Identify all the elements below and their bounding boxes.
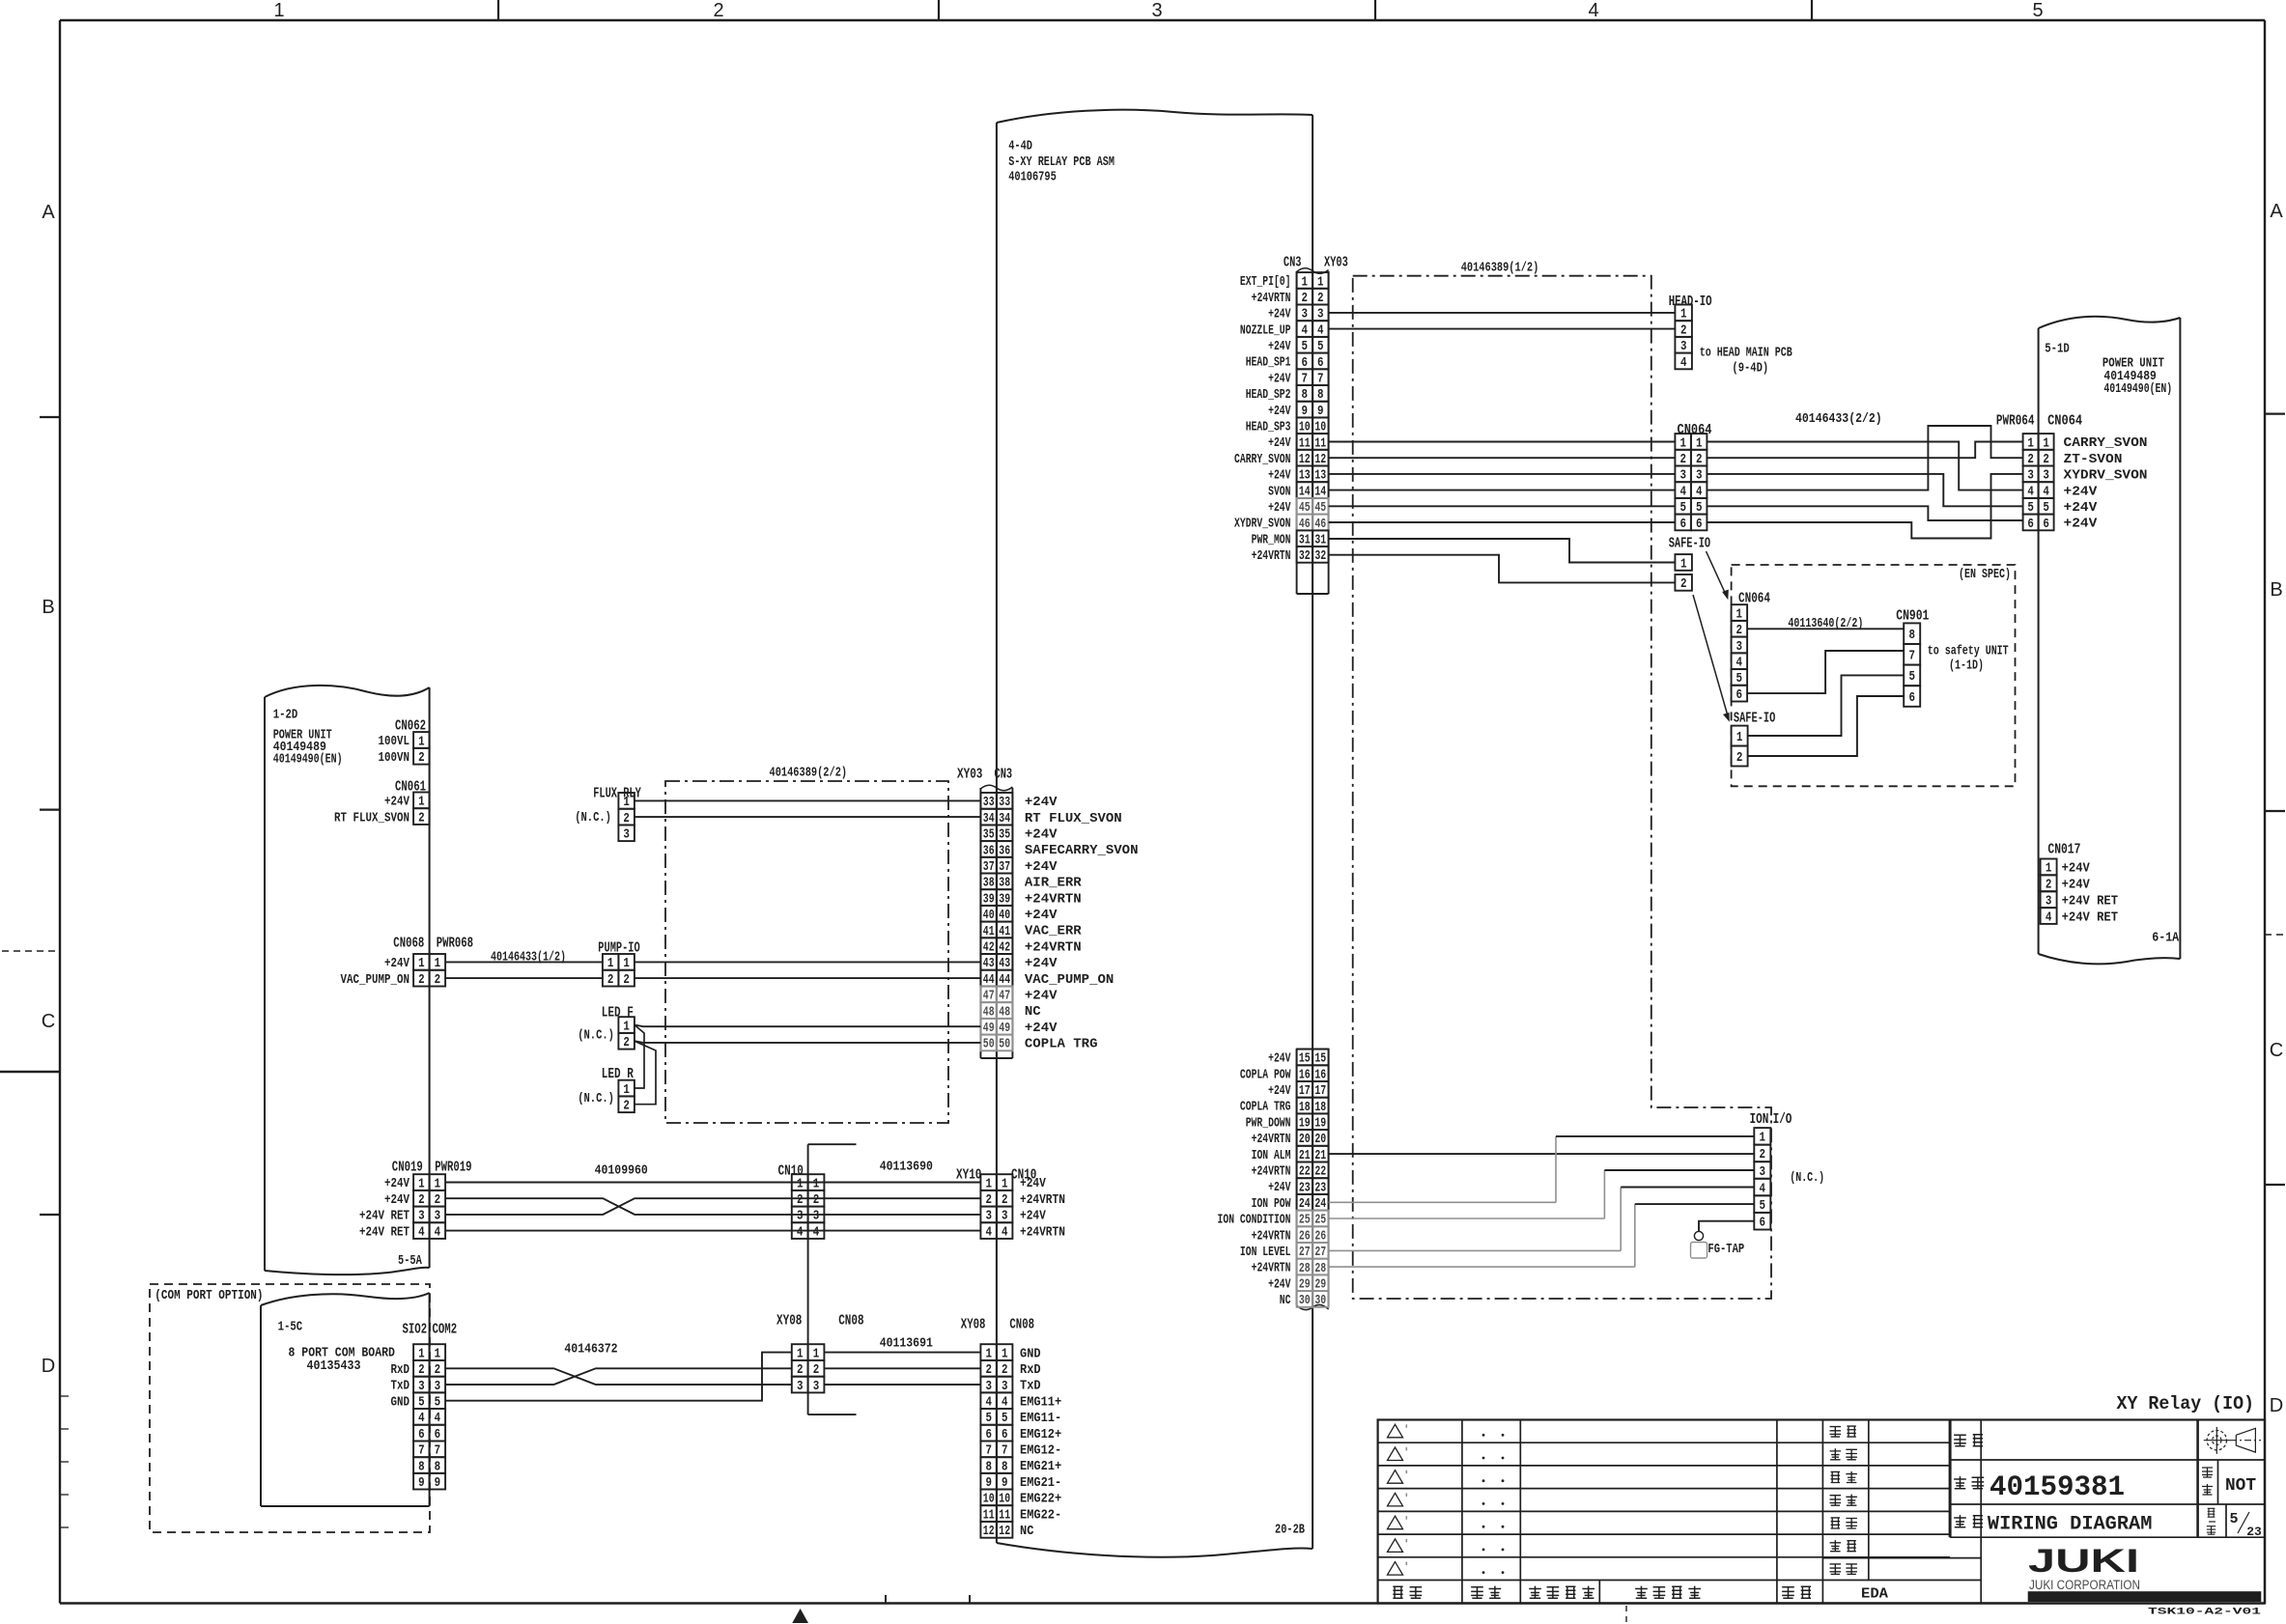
connector XY03/CN3 mid header labels xyxy=(957,767,1012,783)
svg-text:9: 9 xyxy=(435,1476,441,1491)
svg-text:RxD: RxD xyxy=(1020,1362,1041,1378)
sheet center fold mark triangle xyxy=(792,1609,808,1623)
svg-text:CN068: CN068 xyxy=(393,936,424,952)
wire COM2-2 RxD to CN08mid-3 crossover xyxy=(445,1368,792,1385)
connector PUMP-IO pins 1-2 xyxy=(603,954,635,988)
svg-text:SVON: SVON xyxy=(1268,484,1290,499)
connector CN061 label xyxy=(395,779,426,796)
option boundary box (COM PORT OPTION) xyxy=(150,1284,430,1532)
zone row letters A-D left xyxy=(42,202,56,1377)
svg-text:6: 6 xyxy=(1736,688,1743,703)
wire CN064-4 to PWR064-2 (ZT-SVON) xyxy=(1707,426,2022,490)
svg-text:40149490(EN): 40149490(EN) xyxy=(2103,381,2172,397)
option boundary label (EN SPEC) xyxy=(1959,567,2011,582)
svg-text:AIR_ERR: AIR_ERR xyxy=(1025,876,1082,891)
wire CN064-3 to PWR064-5 (+24V) xyxy=(1707,474,2022,506)
svg-text:XYDRV_SVON: XYDRV_SVON xyxy=(1234,517,1291,532)
wire CN064-5 to PWR064-6 (+24V) xyxy=(1707,506,2022,520)
svg-text:+24VRTN: +24VRTN xyxy=(1020,1192,1065,1208)
wire CN3-24 ION POW to ION I/O-1 xyxy=(1329,1136,1755,1202)
svg-text:D: D xyxy=(42,1356,55,1377)
wire PWR019-3 to CN10-2 crossover xyxy=(445,1198,980,1215)
svg-text:6: 6 xyxy=(1760,1217,1766,1231)
label (N.C.) at ION I/O xyxy=(1790,1170,1824,1186)
title text XY Relay (IO) xyxy=(2117,1393,2255,1414)
connector XY08/CN08 pins 1-12 xyxy=(980,1344,1012,1539)
svg-text:+24V: +24V xyxy=(1268,404,1291,419)
svg-text:TSK10-A2-V01: TSK10-A2-V01 xyxy=(2148,1607,2261,1618)
svg-text:VAC_PUMP_ON: VAC_PUMP_ON xyxy=(1025,972,1114,988)
wire PWR068-1 to PUMP-IO-1 (+24V) xyxy=(445,961,603,963)
svg-text:A: A xyxy=(2270,201,2283,222)
title name WIRING DIAGRAM xyxy=(1988,1514,2153,1536)
svg-text:40146372: 40146372 xyxy=(564,1342,617,1358)
wire CN10mid-1 to XY10-1 (+24V) xyxy=(824,1182,980,1184)
svg-text:COPLA TRG: COPLA TRG xyxy=(1240,1100,1291,1115)
logo JUKI xyxy=(2028,1543,2262,1602)
connector CN10 mid pins 1-4 xyxy=(792,1174,825,1240)
connector PWR064/CN064 power-unit labels xyxy=(1996,413,2082,430)
wire CN3-3 to HEAD-IO-1 (+24V) xyxy=(1329,312,1676,314)
connector SIO2/COM2 pins xyxy=(391,1344,446,1491)
wire CN3-14 to CN064-4 (SVON) xyxy=(1329,490,1676,491)
svg-text:CN08: CN08 xyxy=(838,1313,863,1330)
wire CN08mid-1 to XY08-1 (GND) xyxy=(824,1352,980,1354)
svg-text:4: 4 xyxy=(797,1225,804,1240)
wire LED F-1 to LED R-1 link xyxy=(635,1025,644,1089)
svg-text:40109960: 40109960 xyxy=(595,1163,648,1179)
wire COM2-5 GND to CN08mid-1 xyxy=(445,1353,792,1401)
svg-text:CN08: CN08 xyxy=(1009,1317,1034,1333)
svg-text:4: 4 xyxy=(1002,1225,1008,1240)
svg-text:CN3: CN3 xyxy=(1284,255,1302,271)
svg-text:RT FLUX_SVON: RT FLUX_SVON xyxy=(1025,811,1122,826)
svg-text:4: 4 xyxy=(1680,356,1687,371)
svg-text:2: 2 xyxy=(418,811,425,826)
connector CN068/PWR068 pins 1-2 xyxy=(341,954,446,988)
block U1 S-XY RELAY PCB ASM 40106795 outline xyxy=(997,110,1312,1557)
svg-text:30: 30 xyxy=(1299,1294,1311,1308)
svg-text:SAFE-IO: SAFE-IO xyxy=(1669,536,1710,552)
svg-text:PWR019: PWR019 xyxy=(435,1160,471,1176)
svg-text:COPLA POW: COPLA POW xyxy=(1240,1067,1291,1082)
zone column numbers 1-5 xyxy=(273,0,2043,21)
block PS2 POWER UNIT 40149489 outline right xyxy=(2039,317,2181,965)
cable label 40113640(2/2) xyxy=(1788,616,1863,631)
wire CN3-13 to CN064-3 (+24V) xyxy=(1329,473,1676,475)
svg-text:9: 9 xyxy=(418,1476,425,1491)
svg-text:1: 1 xyxy=(273,0,284,21)
svg-text:GND: GND xyxy=(391,1394,410,1410)
svg-text:+24VRTN: +24VRTN xyxy=(1020,1224,1065,1240)
connector CN019/PWR019 pins 1-4 xyxy=(359,1174,445,1240)
svg-text:40159381: 40159381 xyxy=(1990,1471,2125,1504)
svg-text:HEAD_SP1: HEAD_SP1 xyxy=(1246,355,1291,371)
svg-text:EMG12+: EMG12+ xyxy=(1020,1427,1061,1442)
svg-text:3: 3 xyxy=(623,828,630,843)
wire CN3-25 ION CONDITION to ION I/O-3 xyxy=(1329,1170,1755,1218)
svg-text:EMG11-: EMG11- xyxy=(1020,1411,1061,1426)
svg-text:PWR064: PWR064 xyxy=(1996,413,2035,430)
zone row letters A-D right xyxy=(2270,201,2284,1416)
svg-text:4-4D: 4-4D xyxy=(1008,139,1032,154)
svg-text:2: 2 xyxy=(607,973,614,988)
connector CN3/XY03 pins 15-30 with bottom break wave xyxy=(1297,1050,1329,1310)
svg-text:FG-TAP: FG-TAP xyxy=(1707,1242,1744,1257)
svg-text:+24VRTN: +24VRTN xyxy=(1252,548,1291,564)
cable label 40146372 xyxy=(564,1342,617,1358)
connector CN064 relay-side pins 1-6 xyxy=(1675,434,1707,532)
connector ION I/O label xyxy=(1750,1111,1792,1128)
wire CN3-31 PWR_MON to SAFE-IO-1 xyxy=(1329,539,1676,563)
svg-text:100VN: 100VN xyxy=(379,750,410,766)
title block approval row labels (kanji) xyxy=(1830,1426,1857,1574)
wire CN064EN-6 to CN901-7 xyxy=(1747,651,1904,693)
svg-text:to HEAD MAIN PCB: to HEAD MAIN PCB xyxy=(1700,346,1792,361)
svg-text:XYDRV_SVON: XYDRV_SVON xyxy=(2064,468,2148,484)
connector CN062 label xyxy=(395,718,426,735)
svg-text:(9-4D): (9-4D) xyxy=(1732,361,1768,377)
connector XY08/CN08 mid pins 1-3 xyxy=(792,1344,825,1394)
svg-text:SAFE-IO: SAFE-IO xyxy=(1734,711,1775,727)
title part number 40159381 xyxy=(1990,1471,2125,1504)
svg-text:PWR068: PWR068 xyxy=(437,936,473,952)
wire CN3-21 ION ALM to ION I/O-2 xyxy=(1329,1153,1755,1155)
svg-text:+24V RET: +24V RET xyxy=(359,1224,409,1240)
cable label 40109960 xyxy=(595,1163,648,1179)
svg-text:50: 50 xyxy=(999,1038,1010,1052)
svg-text:EMG21-: EMG21- xyxy=(1020,1475,1061,1491)
svg-text:+24V: +24V xyxy=(1268,1276,1291,1292)
connector CN3/XY03 header labels xyxy=(1284,255,1348,271)
connector CN3 signal name labels rows 1-32 xyxy=(1234,274,1291,564)
svg-text:XY03: XY03 xyxy=(957,767,982,783)
svg-text:+24V: +24V xyxy=(1268,1051,1291,1067)
wire LED F-2 to LED R-2 link xyxy=(635,1041,656,1105)
svg-text:+24V: +24V xyxy=(384,1192,409,1208)
wire CN064-2 to PWR064-1 (CARRY_SVON) xyxy=(1707,442,2022,459)
svg-text:+24V: +24V xyxy=(1025,827,1058,843)
svg-text:2: 2 xyxy=(418,973,425,988)
svg-text:+24VRTN: +24VRTN xyxy=(1025,891,1082,907)
svg-text:+24V: +24V xyxy=(1268,1083,1291,1099)
svg-text:XY03: XY03 xyxy=(1324,255,1348,271)
svg-text:2: 2 xyxy=(623,973,630,988)
svg-text:HEAD_SP2: HEAD_SP2 xyxy=(1246,387,1291,403)
svg-text:40149490(EN): 40149490(EN) xyxy=(273,752,343,768)
svg-text:50: 50 xyxy=(983,1038,995,1052)
svg-text:+24V: +24V xyxy=(1268,435,1291,451)
svg-text:XY08: XY08 xyxy=(961,1317,986,1333)
svg-text:S-XY RELAY PCB ASM: S-XY RELAY PCB ASM xyxy=(1008,154,1115,170)
svg-text:ZT-SVON: ZT-SVON xyxy=(2064,452,2123,467)
title block header row labels (kanji) 記号 日付 変更番号 変更記事 担当 xyxy=(1393,1586,1811,1599)
title block model/part labels (kanji) 型式 品番 品名 xyxy=(1954,1435,1984,1527)
svg-text:40113691: 40113691 xyxy=(880,1336,933,1352)
svg-text:CARRY_SVON: CARRY_SVON xyxy=(2064,435,2148,451)
svg-text:2: 2 xyxy=(1760,1148,1766,1162)
title block EDA text xyxy=(1861,1586,1888,1603)
svg-text:COM2: COM2 xyxy=(433,1322,458,1338)
svg-text:ION CONDITION: ION CONDITION xyxy=(1218,1213,1291,1228)
connector XY03/CN3 pins 33-50 with break wave xyxy=(980,785,1012,1058)
connector CN064 power-unit signal labels xyxy=(2064,435,2148,532)
svg-text:5: 5 xyxy=(1908,670,1915,685)
svg-text:2: 2 xyxy=(713,0,723,21)
connector CN064 relay-side label xyxy=(1678,422,1712,438)
svg-text:+24V: +24V xyxy=(1025,989,1058,1004)
connector PWR064/CN064 power-unit pins 1-6 xyxy=(2023,434,2054,532)
connector SAFE-IO label xyxy=(1669,536,1710,552)
svg-text:+24V: +24V xyxy=(1020,1176,1046,1191)
svg-text:PWR_DOWN: PWR_DOWN xyxy=(1246,1115,1291,1131)
svg-text:VAC_ERR: VAC_ERR xyxy=(1025,924,1082,939)
svg-text:100VL: 100VL xyxy=(379,734,410,749)
svg-text:to safety UNIT: to safety UNIT xyxy=(1928,644,2009,659)
connector XY08/CN08 mid labels xyxy=(776,1313,864,1330)
option boundary label (COM PORT OPTION) xyxy=(155,1288,263,1303)
connector LED R label xyxy=(602,1066,634,1082)
svg-text:ION ALM: ION ALM xyxy=(1252,1148,1291,1163)
wire FLUX RLY-2 to XY03-34 (RT FLUX_SVON) xyxy=(635,816,981,818)
svg-text:5: 5 xyxy=(2229,1511,2238,1527)
svg-text:+24V: +24V xyxy=(1268,371,1291,386)
svg-text:+24V: +24V xyxy=(1025,795,1058,810)
svg-text:ION: ION xyxy=(1750,1111,1769,1128)
wire PWR019-4 to CN10-4 (+24V RET) xyxy=(445,1230,980,1232)
svg-text:1-2D: 1-2D xyxy=(273,708,298,723)
svg-text:XY08: XY08 xyxy=(776,1313,802,1330)
third angle projection symbol xyxy=(2204,1427,2261,1454)
svg-text:XY10: XY10 xyxy=(956,1167,981,1184)
wire CN064-6 to PWR064-3 (XYDRV_SVON) xyxy=(1707,474,2022,539)
svg-text:40113690: 40113690 xyxy=(880,1160,933,1175)
svg-text:40146389(2/2): 40146389(2/2) xyxy=(770,766,848,781)
svg-text:4: 4 xyxy=(985,1225,992,1240)
connector XY10/CN10 header labels xyxy=(956,1167,1036,1184)
wire PUMP-IO-1 to XY03-43 (+24V) xyxy=(635,961,981,963)
svg-text:6: 6 xyxy=(1679,518,1686,532)
svg-text:12: 12 xyxy=(983,1525,995,1539)
connector CN061 pins +24V / RT FLUX_SVON xyxy=(334,793,430,826)
svg-text:NC: NC xyxy=(1280,1293,1291,1308)
svg-text:+24V: +24V xyxy=(2062,861,2091,877)
svg-text:GND: GND xyxy=(1020,1346,1041,1361)
svg-text:B: B xyxy=(42,597,54,618)
title page label (kana) and 5/23 xyxy=(2207,1508,2262,1539)
svg-text:5: 5 xyxy=(1760,1199,1766,1214)
svg-text:1: 1 xyxy=(1736,731,1743,745)
svg-text:RT FLUX_SVON: RT FLUX_SVON xyxy=(334,810,409,826)
svg-text:2: 2 xyxy=(2046,879,2052,893)
block U1 sheet reference 20-2B xyxy=(1275,1523,1305,1538)
svg-text:LED F: LED F xyxy=(602,1005,634,1022)
svg-text:A: A xyxy=(42,202,55,223)
wire LED F-2 to XY03-50 (COPLA TRG) xyxy=(635,1041,981,1043)
wire CN3-4 to HEAD-IO-2 (NOZZLE_UP) xyxy=(1329,328,1676,330)
svg-text:1: 1 xyxy=(1680,557,1687,572)
svg-text:+24V: +24V xyxy=(1025,908,1058,923)
svg-text:4: 4 xyxy=(1588,0,1598,21)
reference arrow CN064 to EN-spec CN064 xyxy=(1707,551,1729,600)
svg-text:+24V: +24V xyxy=(1268,307,1291,322)
svg-text:PWR_MON: PWR_MON xyxy=(1252,532,1291,547)
svg-text:+24V RET: +24V RET xyxy=(359,1209,409,1224)
svg-text:JUKI: JUKI xyxy=(2028,1543,2139,1580)
svg-text:12: 12 xyxy=(999,1525,1010,1539)
svg-text:D: D xyxy=(2270,1395,2283,1416)
svg-text:+24VRTN: +24VRTN xyxy=(1252,1228,1291,1244)
svg-text:6: 6 xyxy=(1908,691,1915,706)
svg-text:3: 3 xyxy=(1760,1165,1766,1180)
svg-text:(EN SPEC): (EN SPEC) xyxy=(1959,567,2011,582)
svg-text:+24V: +24V xyxy=(1020,1209,1046,1224)
svg-text:3: 3 xyxy=(813,1380,820,1394)
connector FLUX RLY pins 1-3 xyxy=(618,793,635,843)
svg-text:6: 6 xyxy=(2027,518,2034,532)
svg-text:2: 2 xyxy=(623,1036,630,1050)
wire SAFE-IO-EN-1 to CN901-5 xyxy=(1748,675,1905,736)
svg-text:EMG22-: EMG22- xyxy=(1020,1507,1061,1523)
wire PWR019-1 to CN10-1 (+24V) xyxy=(445,1182,980,1184)
svg-text:EMG22+: EMG22+ xyxy=(1020,1492,1061,1507)
svg-text:VAC_PUMP_ON: VAC_PUMP_ON xyxy=(341,972,410,988)
svg-text:40135433: 40135433 xyxy=(307,1358,361,1374)
option boundary box (EN SPEC) xyxy=(1732,565,2016,786)
connector CN064 EN-spec label xyxy=(1738,591,1770,607)
svg-text:NC: NC xyxy=(1025,1004,1041,1020)
svg-text:4: 4 xyxy=(418,1225,425,1240)
svg-text:+24VRTN: +24VRTN xyxy=(1252,1261,1291,1276)
svg-text:COPLA TRG: COPLA TRG xyxy=(1025,1037,1098,1052)
svg-text:+24V: +24V xyxy=(2064,517,2098,532)
connector XY08/CN08 header labels xyxy=(961,1317,1034,1333)
wire CN08mid-2 to XY08-2 (RxD) xyxy=(824,1367,980,1369)
svg-text:20-2B: 20-2B xyxy=(1275,1523,1305,1538)
svg-text:(1-1D): (1-1D) xyxy=(1949,658,1984,674)
svg-text:6: 6 xyxy=(1696,518,1703,532)
connector SAFE-IO pins 1-2 xyxy=(1675,554,1692,592)
svg-text:TxD: TxD xyxy=(1020,1379,1041,1394)
svg-text:NOT: NOT xyxy=(2225,1476,2256,1496)
wire FLUX RLY-1 to XY03-33 (+24V) xyxy=(635,799,981,801)
svg-text:EMG11+: EMG11+ xyxy=(1020,1394,1061,1410)
svg-text:+24V: +24V xyxy=(1268,500,1291,516)
svg-text:2: 2 xyxy=(435,973,441,988)
svg-text:TxD: TxD xyxy=(391,1379,410,1394)
svg-text:2: 2 xyxy=(1680,577,1687,592)
connector CN901 label xyxy=(1896,608,1929,625)
connector SAFE-IO EN-spec pins 1-2 xyxy=(1732,726,1748,767)
svg-text:1-5C: 1-5C xyxy=(278,1320,303,1335)
label (N.C.) at LED R xyxy=(578,1091,614,1106)
block PS2 sheet reference 6-1A xyxy=(2152,931,2179,946)
svg-text:4: 4 xyxy=(2046,910,2052,925)
svg-text:+24V: +24V xyxy=(1268,1180,1291,1195)
svg-text:+24V: +24V xyxy=(1268,339,1291,354)
connector HEAD-IO pins 1-4 xyxy=(1675,305,1692,371)
label (N.C.) at LED F xyxy=(578,1028,614,1044)
wire PUMP-IO-2 to XY03-44 (VAC_PUMP_ON) xyxy=(635,977,981,979)
svg-text:+24VRTN: +24VRTN xyxy=(1252,1132,1291,1147)
connector HEAD-IO label xyxy=(1669,294,1712,310)
wire CN064-1 to PWR064-4 (+24V) xyxy=(1707,442,2022,490)
svg-text:SAFECARRY_SVON: SAFECARRY_SVON xyxy=(1025,843,1139,858)
svg-text:+24V: +24V xyxy=(384,795,409,810)
wire PWR019-2 to CN10-3 crossover xyxy=(445,1198,980,1215)
svg-text:+24VRTN: +24VRTN xyxy=(1252,291,1291,306)
svg-text:+24V: +24V xyxy=(2062,878,2091,893)
svg-text:40146433(2/2): 40146433(2/2) xyxy=(1795,411,1882,427)
wire ION I/O-6 to FG-TAP xyxy=(1699,1221,1754,1232)
connector CN3 signal name labels rows 15-30 xyxy=(1218,1051,1291,1309)
svg-text:7: 7 xyxy=(1908,650,1915,664)
connector SIO2/COM2 labels xyxy=(403,1322,458,1338)
block A1 8 PORT COM BOARD 40135433 outline xyxy=(261,1293,430,1506)
svg-text:3: 3 xyxy=(797,1380,804,1394)
svg-text:23: 23 xyxy=(2246,1525,2262,1539)
svg-text:I/O: I/O xyxy=(1773,1111,1792,1128)
svg-text:32: 32 xyxy=(1299,549,1311,564)
svg-text:3: 3 xyxy=(1151,0,1162,21)
connector CN10 mid label xyxy=(778,1163,804,1180)
connector CN08 signal labels xyxy=(1020,1346,1061,1539)
svg-text:CN019: CN019 xyxy=(392,1160,423,1176)
svg-text:2: 2 xyxy=(418,751,425,766)
svg-text:+24V RET: +24V RET xyxy=(2062,910,2118,925)
svg-text:4: 4 xyxy=(813,1225,820,1240)
svg-text:ION POW: ION POW xyxy=(1252,1196,1291,1212)
svg-text:1: 1 xyxy=(1760,1132,1766,1146)
svg-text:+24V RET: +24V RET xyxy=(2062,893,2118,909)
svg-text:2: 2 xyxy=(1736,751,1743,766)
svg-text:CN017: CN017 xyxy=(2047,842,2080,858)
svg-text:+24V: +24V xyxy=(2064,500,2098,516)
wire CN3-45 to CN064-5 (+24V) xyxy=(1329,505,1676,507)
connector CN064 EN-spec pins 1-6 xyxy=(1732,604,1748,703)
wire CN08mid-3 to XY08-3 (TxD) xyxy=(824,1384,980,1386)
connector ION I/O pins 1-6 xyxy=(1754,1128,1770,1230)
svg-text:HEAD_SP3: HEAD_SP3 xyxy=(1246,420,1291,435)
svg-text:+24V: +24V xyxy=(1025,956,1058,971)
svg-text:6-1A: 6-1A xyxy=(2152,931,2179,946)
svg-text:(N.C.): (N.C.) xyxy=(578,1091,614,1106)
note to safety UNIT (1-1D) xyxy=(1928,644,2009,674)
svg-text:+24VRTN: +24VRTN xyxy=(1025,939,1082,955)
block U1 title text 4-4D S-XY RELAY PCB ASM 40106795 xyxy=(1008,139,1115,185)
label (N.C.) at FLUX RLY pin 2 xyxy=(575,810,611,826)
connector LED F label xyxy=(602,1005,634,1022)
wire COM2-3 TxD to CN08mid-2 crossover xyxy=(445,1368,792,1385)
svg-text:32: 32 xyxy=(1314,549,1326,564)
wire CN3-46 to CN064-6 (XYDRV_SVON) xyxy=(1329,521,1676,523)
wire LED F-1 to XY03-49 (+24V) xyxy=(635,1025,981,1027)
block PS2 title text 5-1D POWER UNIT 40149489 40149490(EN) xyxy=(2045,342,2172,398)
connector PUMP-IO label xyxy=(598,940,639,957)
block A1 title text 1-5C 8 PORT COM BOARD 40135433 xyxy=(278,1320,395,1375)
title block frame xyxy=(1378,1420,2265,1604)
cable 40146389(2/2) boundary xyxy=(665,781,948,1123)
svg-text:30: 30 xyxy=(1314,1294,1326,1308)
cable label 40113690 xyxy=(880,1160,933,1175)
cable label 40146433(1/2) xyxy=(491,950,566,966)
connector CN068/PWR068 labels xyxy=(393,936,473,952)
svg-text:+24VRTN: +24VRTN xyxy=(1252,1164,1291,1180)
block PS1 POWER UNIT 40149489 outline xyxy=(265,686,430,1274)
ground terminal FG-TAP xyxy=(1691,1231,1745,1258)
svg-text:ION LEVEL: ION LEVEL xyxy=(1240,1245,1291,1260)
block PS1 sheet reference 5-5A xyxy=(398,1253,422,1269)
